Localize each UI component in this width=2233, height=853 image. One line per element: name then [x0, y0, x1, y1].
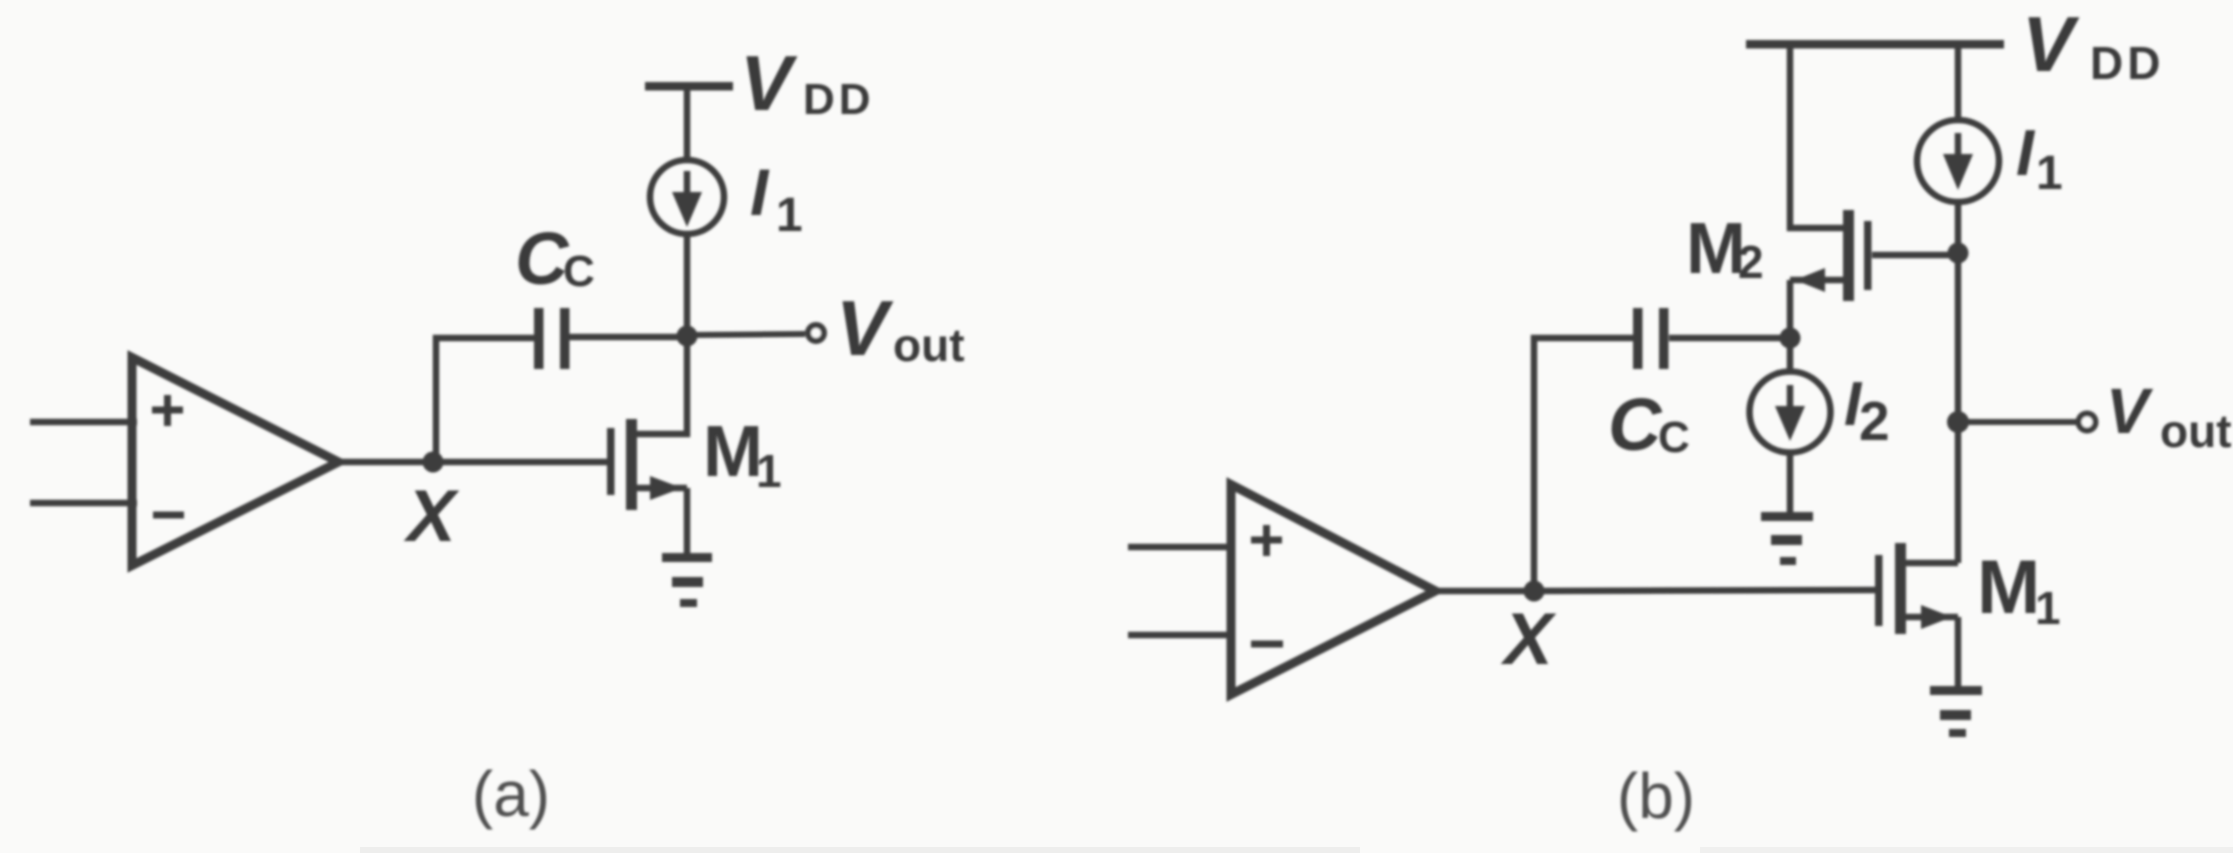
terminal Vout (b) [2079, 414, 2096, 431]
wire op-amp output to node X (b) [1438, 588, 1534, 595]
wire gate of M1 to node X (b) [1534, 590, 1875, 591]
current source I2 (b) [1750, 372, 1831, 453]
svg-text:1: 1 [2036, 147, 2063, 200]
svg-text:C: C [1658, 413, 1690, 462]
wire input+ (b) [1128, 544, 1234, 551]
wire I1 down to M1 drain (b) [1955, 204, 1962, 563]
svg-text:X: X [1500, 599, 1557, 680]
wire I1 to VDD (a) [684, 88, 691, 158]
wire M2 drain to VDD rail (b) [1790, 44, 1848, 228]
node Vout (b) [1947, 411, 1969, 433]
wire junction down to M1 drain (a) [632, 336, 687, 434]
wire input+ (a) [30, 419, 137, 426]
svg-text:M: M [703, 412, 763, 492]
wire M1 source to ground (a) [684, 488, 691, 557]
op-amp plus input marking (b) [1251, 525, 1282, 556]
wire VDD to I1 (b) [1955, 44, 1962, 119]
wire node X up to capacitor (a) [436, 338, 534, 462]
capacitor CC (a) [534, 308, 570, 369]
svg-text:I: I [750, 155, 770, 229]
power VDD rail (b) [1746, 40, 2004, 49]
svg-text:1: 1 [2035, 582, 2061, 634]
wire M1 source to ground (b) [1955, 617, 1962, 689]
op-amp A2 [1231, 485, 1436, 695]
svg-text:1: 1 [776, 189, 803, 242]
node M2 source (b) [1780, 328, 1801, 349]
svg-text:C: C [563, 247, 595, 296]
wire node to Vout terminal (b) [1958, 419, 2076, 425]
wire M2 gate to I1 node (b) [1872, 252, 1958, 259]
wire junction up to I1 (a) [684, 237, 691, 336]
capacitor CC (b) [1633, 308, 1669, 369]
op-amp minus input marking (b) [1251, 641, 1283, 648]
ground below M1 (b) [1930, 686, 1982, 737]
ground below I2 (b) [1761, 512, 1813, 565]
node M2 gate junction (b) [1948, 243, 1969, 264]
faint page-edge shadow bottom [360, 847, 1360, 853]
wire input- (a) [30, 500, 137, 507]
svg-text:C: C [1608, 383, 1663, 466]
op-amp plus input marking [152, 395, 183, 426]
wire input- (b) [1128, 632, 1234, 639]
ground (a) [662, 553, 712, 607]
svg-text:2: 2 [1859, 390, 1890, 452]
svg-text:DD: DD [803, 75, 875, 124]
svg-text:V: V [836, 284, 894, 372]
wire junction to Vout terminal (a) [687, 334, 805, 335]
svg-text:I: I [2016, 116, 2036, 189]
wire I2 to ground (b) [1787, 453, 1794, 514]
wire capacitor to output node (a) [569, 334, 687, 341]
wire capacitor to M2 source node (b) [1669, 335, 1790, 342]
op-amp minus input marking [153, 512, 184, 519]
op-amp A1 [132, 358, 339, 566]
svg-text:(b): (b) [1617, 760, 1695, 832]
transistor M1 (b) [1875, 543, 1958, 634]
wire op-amp output to node X (a) [341, 459, 433, 466]
node X (a) [423, 452, 444, 473]
svg-text:out: out [2160, 405, 2232, 457]
svg-text:out: out [893, 319, 965, 371]
svg-text:V: V [740, 39, 798, 127]
wire node to I2 (b) [1787, 338, 1794, 372]
transistor M1 (a) [607, 419, 687, 510]
svg-text:X: X [403, 476, 460, 557]
svg-text:C: C [515, 217, 570, 300]
svg-text:2: 2 [1738, 236, 1764, 288]
svg-text:1: 1 [756, 445, 782, 497]
transistor M2 (b) [1790, 210, 1872, 301]
svg-text:V: V [2106, 375, 2154, 447]
svg-text:(a): (a) [472, 758, 550, 830]
wire gate of M1 to node X (a) [433, 459, 607, 466]
node X (b) [1524, 581, 1545, 602]
power VDD bar (a) [645, 82, 733, 91]
terminal Vout (a) [808, 325, 824, 341]
svg-text:M: M [1686, 209, 1746, 289]
svg-text:DD: DD [2090, 37, 2164, 89]
wire M2 source down to node (b) [1787, 280, 1794, 338]
svg-text:V: V [2022, 0, 2080, 88]
current source I1 (b) [1917, 120, 1999, 202]
node output junction (a) [677, 326, 698, 347]
wire node X up to capacitor (b) [1534, 338, 1633, 591]
current source I1 (a) [650, 160, 724, 234]
svg-text:M: M [1977, 545, 2040, 630]
